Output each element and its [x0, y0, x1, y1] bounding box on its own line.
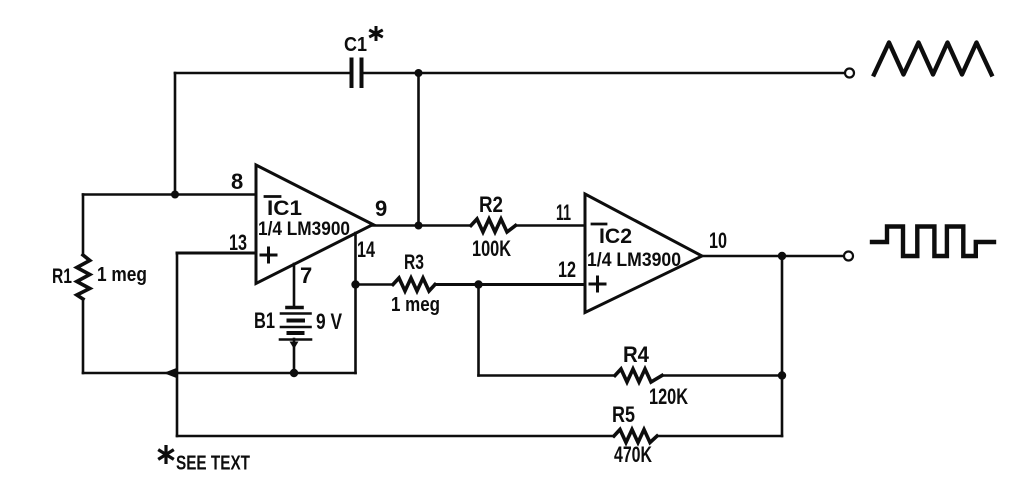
svg-text:100K: 100K [472, 236, 511, 261]
wire R2 right to IC2 [516, 224, 585, 227]
svg-text:C1: C1 [344, 34, 367, 56]
op-amp U2 IC2 triangle [585, 194, 702, 313]
wire pin 13 horizontal [177, 252, 256, 255]
svg-text:1 meg: 1 meg [97, 264, 147, 286]
svg-text:13: 13 [229, 230, 247, 255]
wire left vertical R1 branch lower [82, 299, 85, 373]
wire R4 row right [662, 374, 782, 377]
wire battery negative to bottom [293, 339, 296, 373]
IC2 plus sign [590, 277, 605, 291]
output terminal circle bottom (square out) [844, 252, 853, 261]
svg-text:7: 7 [300, 263, 312, 288]
svg-text:11: 11 [556, 200, 571, 225]
label see-text asterisk [158, 445, 174, 464]
svg-text:470K: 470K [614, 442, 652, 467]
svg-text:B1: B1 [254, 308, 275, 333]
svg-text:R3: R3 [404, 251, 424, 274]
svg-text:8: 8 [231, 169, 243, 194]
IC1 plus sign [261, 248, 276, 262]
wire pin 8 horizontal [83, 193, 256, 196]
svg-text:R2: R2 [479, 192, 503, 217]
wire R3 row left [356, 283, 394, 286]
wire R5 row left [177, 435, 614, 438]
wire vertical from pin13 down to R5 row [176, 253, 179, 436]
svg-text:10: 10 [709, 228, 727, 253]
wire top C1 right segment [362, 72, 845, 75]
node dot C1-right junction [415, 69, 423, 77]
resistor R1 [77, 255, 90, 299]
svg-text:9 V: 9 V [316, 309, 342, 334]
wire pin 14 vertical [354, 233, 357, 373]
node dot R3/pin14 junction [351, 280, 359, 288]
svg-text:R1: R1 [52, 265, 72, 288]
svg-text:9: 9 [375, 196, 387, 221]
node dot IC1 output junction [415, 222, 423, 230]
node dot IC2 output junction [778, 252, 786, 260]
wire vertical R3 junction down to R4 row [477, 285, 480, 376]
svg-text:1/4 LM3900: 1/4 LM3900 [587, 249, 681, 271]
wire right vertical output to R5 [781, 256, 784, 436]
svg-text:1/4 LM3900: 1/4 LM3900 [258, 218, 350, 240]
wire vertical from top wire down to pin8 wire [174, 73, 177, 194]
resistor R2 [471, 219, 516, 232]
node dot pin8 wire junction [171, 191, 179, 199]
svg-text:12: 12 [558, 257, 576, 282]
IC1 minus input bar [265, 195, 280, 198]
wire top C1 left segment [175, 72, 350, 75]
wire R4 row left [479, 374, 616, 377]
wire left vertical R1 branch upper [82, 195, 85, 256]
svg-text:R4: R4 [623, 342, 650, 367]
triangle wave output symbol [874, 43, 992, 75]
svg-text:1 meg: 1 meg [391, 294, 440, 316]
IC2 minus input bar [592, 223, 606, 226]
wire vertical C1 junction to output wire [417, 73, 420, 226]
wire bottom left horizontal [83, 372, 356, 375]
svg-text:R5: R5 [612, 402, 635, 427]
square wave output symbol [872, 227, 994, 257]
label C1 asterisk [369, 26, 383, 41]
node dot R3/R4 junction [474, 280, 482, 288]
output terminal circle top (triangle out) [845, 69, 854, 78]
wire IC2 output [702, 255, 844, 258]
arrowhead left on bottom wire crossing [164, 368, 177, 378]
arrowhead down on battery negative wire [290, 342, 299, 350]
op-amp U1 IC1 triangle [256, 165, 373, 284]
svg-text:IC1: IC1 [267, 197, 302, 220]
svg-text:14: 14 [357, 237, 376, 262]
resistor R4 [615, 369, 662, 382]
svg-text:120K: 120K [649, 384, 688, 409]
wire pin 7 vertical [293, 264, 296, 306]
node dot battery bottom junction [290, 369, 298, 377]
svg-text:IC2: IC2 [599, 225, 632, 248]
wire R3 right to IC2 pin 12 [435, 283, 584, 286]
svg-text:SEE TEXT: SEE TEXT [176, 452, 250, 475]
wire IC1 output to IC2 pin 11 [373, 224, 471, 227]
wire R5 row right [657, 435, 782, 438]
capacitor C1 [350, 60, 354, 87]
resistor R3 [393, 278, 435, 291]
node dot R4 right junction [778, 371, 786, 379]
resistor R5 [614, 430, 657, 443]
battery B1 [287, 306, 302, 310]
